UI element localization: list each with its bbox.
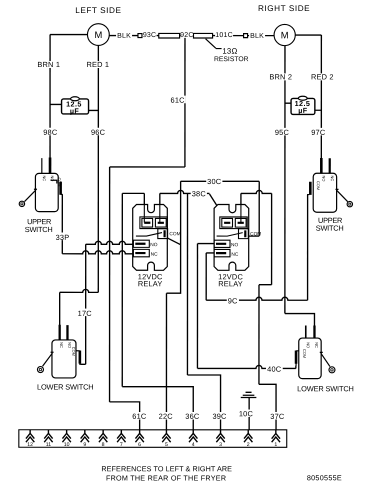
svg-text:NC: NC [330,176,335,182]
terminal 5 [162,430,170,442]
svg-text:93C: 93C [143,32,156,39]
relay K1 NC box [133,249,149,256]
label 37C bottom [270,412,286,420]
wire 101C resistor to connector [213,35,244,37]
label 96C [90,128,106,136]
svg-text:33P: 33P [56,233,70,242]
svg-text:µF: µF [70,106,80,115]
relay K2 right 12VDC [214,205,249,271]
connector plug right [244,34,248,38]
lower switch right roller [329,367,335,373]
upper switch left lever [25,189,38,201]
svg-text:92C: 92C [180,32,193,39]
wire cap C2 left tap [285,102,291,104]
lower switch left NC blade [59,325,61,341]
wire right relay NC horizontal [206,252,214,254]
resistor R1 box [159,33,180,38]
wire 61C bottom jog to terminal 6 [110,402,140,432]
svg-text:COM: COM [57,177,62,186]
relay K2 coil wires re-entry [240,205,242,223]
relay K1 left 12VDC [133,204,168,270]
wire 36C bottom jog to terminal 4 [122,387,193,432]
wire 95C jog to lower switch NC [285,314,315,327]
wire right coil leg down [271,193,273,284]
motor M right [274,24,295,45]
upper switch right COM wire stub [308,194,310,197]
wire 36C vertical [121,193,123,386]
label 30C [206,177,222,185]
wire 17C vertical [85,244,87,364]
wire cap C1 right tap [89,109,99,111]
upper switch left roller [19,201,24,206]
svg-text:97C: 97C [311,128,326,137]
upper switch right NC stub [329,158,331,173]
wire RED1 motor bottom [97,46,99,293]
relay K1 COM blade [164,230,166,237]
svg-text:96C: 96C [91,128,106,137]
relay K2 outline [214,205,249,271]
wire 30C left leg down to COM junction and 22C jog [166,181,180,293]
wire left relay left coil drop [143,193,145,222]
relay K1 COM box [158,229,168,239]
lower switch right NO stub [305,325,307,338]
wire BLK left motor to connector [109,35,138,37]
lower switch right COM blade [295,351,298,364]
wire cap C1 left tap [50,103,62,105]
svg-text:61C: 61C [171,96,186,105]
relay K2 NO box [214,240,230,247]
motor M left [87,24,109,46]
svg-text:FROM THE REAR OF THE FRYER: FROM THE REAR OF THE FRYER [106,473,226,482]
wire RED2/97C vertical to upper switch NO [320,35,322,159]
svg-text:COM: COM [71,347,76,356]
svg-text:11: 11 [46,442,52,448]
upper switch left COM wire stub [61,193,63,196]
label 61C top [170,96,186,104]
lower switch left lever [43,352,54,366]
svg-text:2: 2 [247,442,250,448]
label 17C [77,309,92,317]
label BLK left [116,32,132,39]
terminal 2 [244,430,252,442]
upper switch right COM blade [309,182,312,195]
lower switch right lever [320,352,330,366]
svg-text:COM: COM [316,181,321,190]
upper switch right NO blade [320,158,323,174]
wire 9C horizontal (hops at 259 284.9) [206,297,307,300]
relay K2 coil terminal B [235,218,246,227]
wire 37C bottom jog to terminal 1 [259,384,276,431]
wire BRN2/95C vertical [284,46,286,314]
wire 96C vertical into lower switch NC [59,292,61,326]
svg-text:98C: 98C [43,128,58,137]
wire 96C horizontal to lower switch NC (hop at 85.7) [60,289,99,292]
capacitor C1 box [62,99,89,114]
wire 17C horizontal to relay NO (hops at 98.3 109.6 122.3) [86,241,134,244]
wire left relay left coil horizontal [122,192,144,194]
callout leader 13-ohm resistor [206,39,222,49]
relay K2 NC blade [216,252,226,254]
lower switch left [37,325,80,378]
connector plug left [138,34,142,38]
wire 40C vertical from right relay NO [196,244,198,369]
svg-text:RELAY: RELAY [218,279,243,288]
svg-text:12: 12 [27,442,33,448]
label 98C [43,128,59,136]
terminal 3 [216,430,224,442]
svg-text:5: 5 [165,442,168,448]
wire 61C long vertical [109,167,111,402]
label BRN 1 [39,61,60,68]
relay K2 armature [217,233,243,237]
svg-text:NC: NC [314,342,319,348]
svg-text:13Ω: 13Ω [222,47,237,56]
label 9C [227,296,239,304]
terminal chevrons [26,430,280,442]
terminal 12 [26,430,34,442]
wire right coil horizontal (hop at 259.2) [241,190,272,193]
label 38C [191,189,207,197]
wire lower switch COM to 17C [81,363,86,365]
wire 40C stub to lower switch COM [295,366,297,369]
wire 38C horizontal (hop at 180.6) [160,190,210,193]
wire 92C between resistors [180,35,194,37]
relay K2 coil terminal A [222,218,233,227]
svg-text:39C: 39C [212,412,227,421]
svg-text:7: 7 [120,442,123,448]
svg-text:NO: NO [321,176,326,182]
svg-text:4: 4 [192,442,195,448]
relay K1 coil wires re-entry [144,204,160,222]
label 92C [181,31,193,38]
svg-text:1: 1 [274,442,277,448]
wire 30C horizontal [181,180,260,182]
wire 37C vertical (9C and 40C hop over) [258,285,260,385]
relay K1 NO box [133,240,149,247]
wire 33P vertical from upper switch COM [61,195,63,254]
wire RED2 motor right [295,34,321,36]
label 97C [311,128,327,136]
svg-text:SWITCH: SWITCH [316,224,344,233]
svg-text:BRN 2: BRN 2 [269,72,292,81]
wire BLK connector to right motor [248,35,275,37]
svg-text:NC: NC [231,252,238,258]
label 39C bottom [212,412,228,420]
wire BRN1 motor-left horizontal [50,34,88,36]
svg-text:8: 8 [102,442,105,448]
svg-text:NC: NC [151,252,158,258]
terminal 11 [44,430,52,442]
svg-text:M: M [94,29,102,40]
svg-text:8050555E: 8050555E [307,473,342,482]
wire left relay COM diagonal [167,238,181,245]
relay K2 coil container [220,217,247,229]
svg-text:6: 6 [138,442,141,448]
lower switch right NC blade [313,325,315,338]
lower switch right COM step [296,351,299,366]
upper switch left NC stub [41,158,43,173]
svg-text:REFERENCES TO LEFT & RIGHT ARE: REFERENCES TO LEFT & RIGHT ARE [101,464,232,473]
svg-text:NO: NO [231,242,238,248]
upper switch right lever [336,189,348,201]
svg-text:22C: 22C [159,412,174,421]
capacitor C1 top bubble [71,97,80,101]
svg-text:COM: COM [250,231,261,237]
lower switch left COM blade [79,350,82,363]
svg-text:NC: NC [42,175,47,181]
wire 9C vertical from right relay NC [205,253,207,300]
svg-text:NO: NO [306,342,311,348]
label BRN 2 [270,73,292,80]
terminal 10 [62,430,70,442]
wire right upper switch COM vertical [307,195,309,300]
wire right coil jog left [259,284,272,286]
wire 10C ground stem to terminal 2 [248,398,250,432]
terminal 8 [99,430,107,442]
wire 38C diagonal into right relay left coil [210,194,228,222]
label 61C bottom [132,412,148,420]
relay K1 NC blade [135,252,145,254]
relay K2 NC box [214,249,230,256]
label 33P [55,233,70,241]
svg-text:37C: 37C [270,412,285,421]
lower switch left NO stub [66,325,68,340]
svg-text:61C: 61C [132,412,147,421]
label 101C [215,31,233,37]
svg-text:38C: 38C [192,189,207,198]
svg-text:COM: COM [302,349,307,358]
svg-text:17C: 17C [78,309,93,318]
svg-text:95C: 95C [275,128,290,137]
label RED 1 [87,61,108,68]
label 40C [266,364,283,372]
terminal 9 [81,430,89,442]
wire 22C vertical to terminal 5 [165,293,167,431]
terminal 7 [117,430,125,442]
wire BRN1/98C vertical to upper switch NO [49,35,51,165]
svg-text:COM: COM [169,231,180,237]
wire 39C bottom jog to terminal 3 [187,375,220,432]
label 36C bottom [185,412,201,420]
svg-text:3: 3 [219,442,222,448]
wire 40C horizontal (hop at 259) [197,365,295,368]
svg-text:LOWER SWITCH: LOWER SWITCH [297,384,354,393]
upper switch right [308,158,353,212]
label RED 2 [312,73,333,80]
svg-text:M: M [281,29,289,40]
svg-text:NO: NO [150,242,157,248]
svg-text:9: 9 [83,442,86,448]
wire right relay NO horizontal [198,243,215,245]
wire 30C right leg down [258,181,260,236]
wire right relay right coil drop [240,193,242,222]
svg-text:RIGHT SIDE: RIGHT SIDE [258,4,310,13]
wire 61C horizontal jog [110,166,185,168]
wire 93C connector to resistor R1 [142,35,159,37]
svg-text:RELAY: RELAY [138,279,163,288]
upper switch left [19,158,62,212]
svg-text:µF: µF [298,106,308,115]
label 93C [143,31,157,37]
terminal 4 [189,430,197,442]
wire 38C to left relay right coil drop [159,193,161,222]
wire 61C vertical from resistor junction [184,38,186,167]
svg-text:9C: 9C [228,296,238,305]
svg-text:SWITCH: SWITCH [25,225,53,234]
resistor R2 13-ohm box [193,33,212,38]
svg-text:LEFT SIDE: LEFT SIDE [75,6,121,15]
upper switch right roller [347,201,352,206]
relay K1 armature [136,233,162,237]
svg-text:RED 2: RED 2 [311,72,334,81]
svg-text:36C: 36C [185,412,200,421]
svg-text:101C: 101C [215,32,233,39]
lower switch right [296,325,335,378]
svg-text:40C: 40C [267,365,282,374]
relay K2 NO blade [216,243,226,245]
svg-text:30C: 30C [207,177,222,186]
svg-text:NO: NO [50,175,55,181]
upper switch left NO blade [49,158,52,174]
wire 33P horizontal to relay NC (hops at 85.7 98.3 109.6 122.3) [62,251,133,254]
upper switch left COM blade [59,182,62,195]
terminal 6 [135,430,143,442]
ground symbol [241,392,257,397]
upper switch left internal com link [51,180,57,183]
svg-text:LOWER SWITCH: LOWER SWITCH [37,383,94,392]
lower switch left roller [37,367,43,373]
svg-text:BLK: BLK [117,33,131,40]
svg-text:10C: 10C [239,409,254,418]
relay K1 coil terminal B [155,218,166,227]
terminal 1 [272,430,280,442]
relay K1 outline [133,204,168,270]
relay K1 NO blade [135,243,145,245]
wire 39C vertical from 38C [186,193,188,375]
relay K2 COM blade [244,230,246,237]
label 10C bottom [238,410,254,418]
svg-text:NC: NC [59,342,64,348]
wire 30C to right relay COM [248,235,259,237]
lower switch left COM step [76,351,81,365]
svg-text:RED 1: RED 1 [86,60,109,69]
relay K2 COM box [239,229,249,239]
capacitor C2 box [291,98,315,114]
label BLK right [249,32,265,39]
wire cap C2 right tap [315,109,322,111]
relay K1 coil container [140,217,167,229]
svg-text:BLK: BLK [250,33,264,40]
terminal strip [19,430,287,448]
capacitor C2 top bubble [298,96,307,100]
label 95C [274,128,290,136]
svg-text:RESISTOR: RESISTOR [214,56,249,63]
svg-text:10: 10 [64,442,70,448]
svg-text:BRN 1: BRN 1 [37,60,60,69]
relay K1 coil terminal A [142,218,153,227]
label 22C bottom [158,412,174,420]
